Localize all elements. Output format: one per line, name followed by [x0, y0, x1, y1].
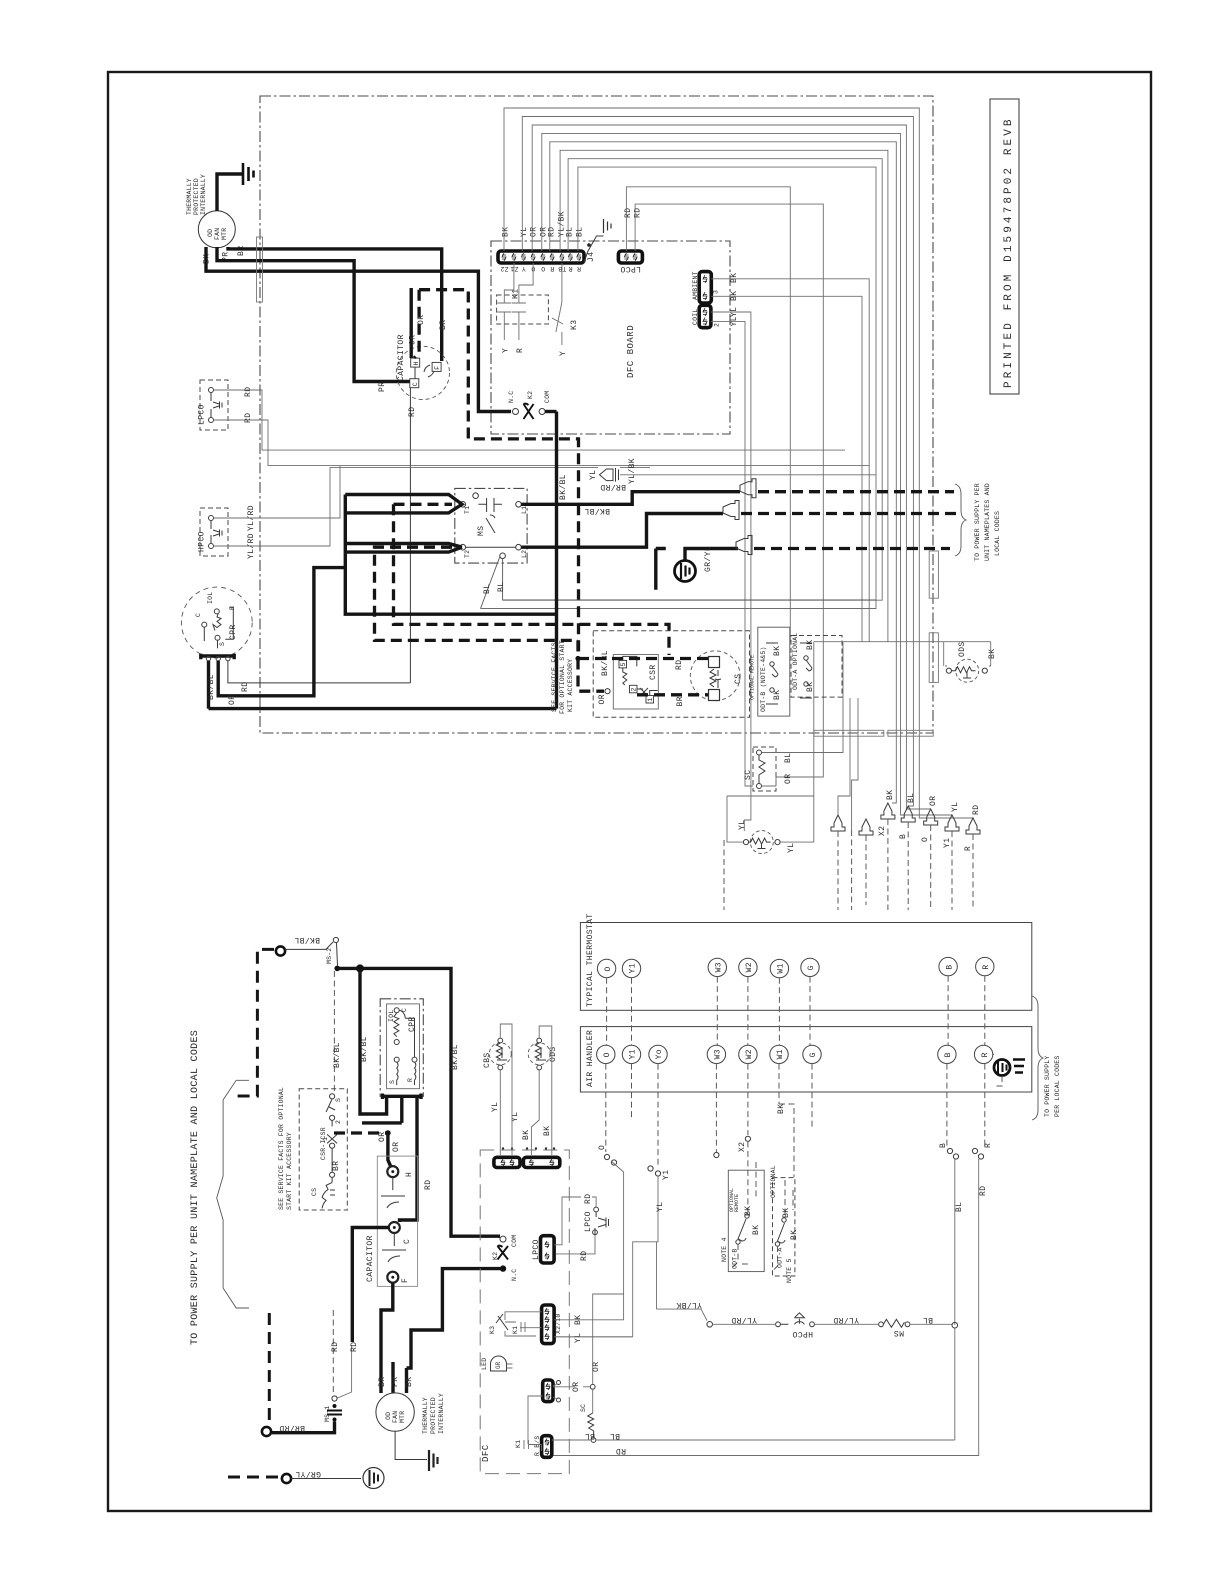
- svg-text:CS: CS: [311, 1188, 318, 1196]
- svg-text:RD: RD: [408, 407, 417, 417]
- svg-text:YL/BK: YL/BK: [676, 1300, 702, 1309]
- brace to power supply note: [955, 484, 966, 556]
- spade YL/BK on wire: [589, 458, 876, 484]
- svg-text:SEE SERVICE FACTS: SEE SERVICE FACTS: [551, 642, 558, 712]
- motor OD FAN MTR: [186, 174, 235, 248]
- wire BK heavy: [206, 247, 511, 412]
- heavy dashed RD to CS: [578, 657, 708, 660]
- svg-text:YL: YL: [520, 227, 529, 237]
- svg-text:LPCO: LPCO: [532, 1239, 541, 1260]
- capacitor box (bottom): [366, 1156, 418, 1286]
- connector LPCO on DFC board: [618, 187, 823, 777]
- svg-text:ODS: ODS: [958, 641, 967, 657]
- svg-text:RD: RD: [584, 1194, 593, 1204]
- svg-text:H: H: [405, 1172, 414, 1177]
- connector ODS plug: [523, 1157, 559, 1167]
- field wire G below: [811, 1064, 813, 1130]
- svg-text:L2: L2: [521, 550, 528, 558]
- svg-text:MS: MS: [477, 526, 486, 536]
- switch SC (top): [744, 642, 843, 791]
- ground symbol circled: [363, 1468, 384, 1489]
- svg-text:MTR: MTR: [399, 1411, 406, 1423]
- J4 pin bottom labels: [500, 265, 581, 272]
- brace power supply local codes: [1032, 996, 1043, 1120]
- motor ground wire: [217, 174, 242, 211]
- contact K2 (bottom): [492, 1235, 518, 1281]
- svg-text:BK: BK: [782, 1208, 791, 1218]
- wire YL/BK chain: [657, 1242, 958, 1338]
- svg-text:COIL: COIL: [692, 309, 699, 325]
- svg-text:S: S: [389, 1080, 396, 1084]
- svg-text:FAN: FAN: [392, 1411, 399, 1423]
- svg-text:BL: BL: [610, 1431, 620, 1440]
- svg-text:YL: YL: [656, 1202, 665, 1212]
- svg-text:BR/RD: BR/RD: [279, 1423, 305, 1432]
- DFC BOARD dash-dot box: [491, 241, 730, 434]
- wire fan from J4: [481, 108, 974, 818]
- svg-text:W1: W1: [776, 1049, 785, 1059]
- svg-text:BL: BL: [955, 1202, 964, 1212]
- field spade B: [899, 793, 916, 910]
- svg-text:BK/BL: BK/BL: [601, 650, 610, 676]
- field wire B below: [946, 1064, 948, 1148]
- svg-text:S: S: [335, 1098, 342, 1102]
- box TYPICAL THERMOSTAT: [580, 923, 1031, 1011]
- svg-text:BL: BL: [585, 1431, 595, 1440]
- svg-text:YL: YL: [574, 1333, 583, 1343]
- heavy vertical to forks: [345, 412, 556, 709]
- svg-text:S: S: [219, 642, 226, 646]
- svg-text:RD: RD: [244, 387, 253, 397]
- svg-text:MS-2: MS-2: [326, 948, 333, 964]
- svg-text:PRINTED FROM D159478P02 REVB: PRINTED FROM D159478P02 REVB: [1003, 116, 1015, 388]
- svg-text:OPTIONAL REMOTE: OPTIONAL REMOTE: [750, 655, 756, 700]
- svg-text:OD: OD: [385, 1412, 392, 1420]
- svg-text:REMOTE: REMOTE: [734, 1194, 740, 1212]
- connector X2/10: [489, 1294, 633, 1344]
- svg-text:O: O: [604, 966, 613, 971]
- svg-text:O: O: [603, 1052, 612, 1057]
- svg-text:KIT ACCESSORY: KIT ACCESSORY: [567, 659, 574, 712]
- switch ODT-A (bottom): [770, 1165, 799, 1283]
- wire RD heavy from C: [352, 1228, 389, 1343]
- svg-text:BL: BL: [907, 793, 916, 803]
- svg-text:RD: RD: [972, 805, 981, 815]
- wire PR heavy: [217, 247, 410, 382]
- svg-text:YL/BK: YL/BK: [628, 458, 637, 484]
- svg-text:BK: BK: [777, 1104, 786, 1114]
- svg-text:BK/BL: BK/BL: [294, 935, 320, 944]
- svg-text:X2/10: X2/10: [555, 1313, 562, 1334]
- unit boundary dash-dot box: [260, 96, 933, 733]
- svg-text:ODT-A OPTIONAL: ODT-A OPTIONAL: [792, 633, 799, 690]
- svg-text:Y: Y: [559, 351, 568, 356]
- svg-text:2: 2: [714, 323, 721, 327]
- wire OR from CPR: [218, 568, 345, 696]
- svg-text:SEE SERVICE FACTS FOR OPTIONAL: SEE SERVICE FACTS FOR OPTIONAL: [278, 1087, 285, 1210]
- svg-text:BK: BK: [752, 1225, 761, 1235]
- svg-text:N.C: N.C: [511, 1269, 518, 1281]
- switch LPCO (left): [198, 380, 870, 466]
- switch HPCO (left): [198, 466, 651, 559]
- svg-text:C: C: [403, 1239, 412, 1244]
- spade BR/RD power: [600, 479, 954, 498]
- svg-text:CBS: CBS: [483, 1052, 492, 1068]
- svg-text:T2: T2: [464, 550, 471, 558]
- svg-text:ODS: ODS: [549, 1046, 558, 1062]
- wire BK/BL heavy to CPR: [360, 968, 387, 1114]
- svg-text:RD: RD: [979, 1186, 988, 1196]
- svg-text:HPCO: HPCO: [198, 531, 207, 552]
- wire OR from comb: [362, 1121, 402, 1124]
- svg-text:PROTECTED: PROTECTED: [430, 1397, 437, 1434]
- spade BK/BL power: [584, 501, 957, 520]
- field wire R below: [984, 1064, 986, 1148]
- svg-text:FOR OPTIONAL START: FOR OPTIONAL START: [559, 640, 566, 714]
- svg-text:W1: W1: [777, 963, 786, 973]
- field wire W1 below: [779, 1064, 794, 1177]
- field wires thermostat to air handler: [607, 976, 985, 1045]
- start kit dashed box (bottom): [299, 1089, 347, 1210]
- svg-text:LPCO: LPCO: [620, 264, 641, 273]
- svg-text:CS: CS: [734, 674, 743, 684]
- svg-text:THERMALLY: THERMALLY: [422, 1397, 429, 1434]
- svg-text:OR: OR: [378, 1132, 387, 1142]
- heavy dashed OR/BR to CS: [578, 659, 604, 692]
- field spade O: [921, 796, 938, 910]
- svg-text:NOTE 4: NOTE 4: [721, 1237, 728, 1262]
- svg-text:BK/BL: BK/BL: [360, 1036, 369, 1062]
- svg-text:DFC: DFC: [481, 1444, 491, 1462]
- switch ODT-A (top): [791, 633, 842, 698]
- field spade X2: [878, 790, 895, 910]
- svg-text:OR: OR: [929, 796, 938, 806]
- svg-text:DFC BOARD: DFC BOARD: [626, 325, 636, 378]
- svg-text:R: R: [407, 1078, 414, 1082]
- svg-text:RD: RD: [424, 1180, 433, 1190]
- svg-text:TYPICAL THERMOSTAT: TYPICAL THERMOSTAT: [586, 913, 595, 1007]
- svg-text:YL: YL: [787, 843, 796, 853]
- svg-text:C: C: [412, 382, 419, 386]
- svg-text:LED: LED: [481, 1358, 488, 1370]
- box AIR HANDLER: [580, 1027, 1031, 1092]
- svg-text:BR: BR: [676, 696, 685, 706]
- capacitor CS: [690, 651, 743, 701]
- svg-text:O: O: [541, 265, 545, 272]
- wire N.C heavy: [407, 1269, 501, 1393]
- spade GR/YL power: [736, 536, 950, 555]
- svg-text:W2: W2: [745, 1049, 754, 1059]
- wire OR solid to H: [410, 288, 413, 358]
- svg-text:BK: BK: [773, 646, 782, 656]
- svg-text:FAN: FAN: [214, 228, 221, 240]
- svg-text:COM: COM: [511, 1235, 518, 1247]
- svg-text:F: F: [434, 366, 441, 370]
- svg-text:B: B: [939, 1143, 948, 1148]
- svg-text:BL: BL: [784, 753, 793, 763]
- svg-text:UNIT NAMEPLATES AND: UNIT NAMEPLATES AND: [984, 483, 991, 561]
- svg-text:B: B: [944, 1052, 953, 1057]
- svg-text:BK: BK: [886, 790, 895, 800]
- ground at air handler: [993, 1054, 1025, 1086]
- svg-text:ODT-B: ODT-B: [732, 1248, 739, 1269]
- svg-text:THERMALLY: THERMALLY: [186, 178, 193, 215]
- fork terminal T2: [345, 544, 462, 553]
- brace bracket: [217, 1080, 249, 1308]
- svg-text:GR/YL: GR/YL: [704, 546, 713, 572]
- svg-text:RD: RD: [580, 1251, 589, 1261]
- svg-text:SC: SC: [744, 770, 753, 780]
- wire RD from comb: [400, 1107, 418, 1222]
- svg-text:R: R: [964, 846, 973, 851]
- svg-text:OD: OD: [207, 229, 214, 237]
- relay CSR-ICSR: [311, 1094, 342, 1209]
- svg-text:BR: BR: [332, 1161, 341, 1171]
- svg-text:X2: X2: [738, 1142, 747, 1152]
- svg-text:OR: OR: [228, 695, 237, 705]
- svg-text:RD: RD: [241, 682, 250, 692]
- svg-text:O: O: [921, 837, 930, 842]
- svg-text:W3: W3: [714, 1049, 723, 1059]
- svg-text:R: R: [550, 265, 554, 272]
- svg-text:BK: BK: [405, 1377, 414, 1387]
- sensor CBS (bottom): [483, 1024, 520, 1155]
- svg-text:OR: OR: [592, 1362, 601, 1372]
- CPR plug comb (bottom): [383, 1094, 422, 1100]
- svg-text:AMBIENT: AMBIENT: [692, 271, 699, 300]
- svg-text:1: 1: [322, 1137, 329, 1141]
- DFC dashed box: [480, 1150, 569, 1474]
- svg-text:R: R: [577, 265, 581, 272]
- field wire W2 below to X2: [747, 1064, 749, 1135]
- svg-text:K2: K2: [527, 391, 534, 399]
- field wire W3 below: [715, 1064, 717, 1152]
- svg-text:YL: YL: [589, 470, 598, 480]
- svg-text:L1: L1: [521, 506, 528, 514]
- switch ODT-B (top): [750, 627, 790, 716]
- svg-text:LPCO: LPCO: [198, 404, 207, 425]
- svg-text:LPCO: LPCO: [584, 1211, 593, 1232]
- svg-text:RD: RD: [244, 413, 253, 423]
- svg-text:CSR-ICSR: CSR-ICSR: [320, 1127, 327, 1160]
- svg-text:GR: GR: [495, 1361, 502, 1369]
- svg-text:PER LOCAL CODES: PER LOCAL CODES: [1054, 1055, 1061, 1117]
- svg-text:RD: RD: [350, 1342, 359, 1352]
- switch K3 on DFC board: [552, 263, 579, 356]
- svg-text:OR: OR: [409, 335, 418, 345]
- svg-text:CPR: CPR: [408, 1016, 417, 1032]
- svg-text:Yo: Yo: [655, 1049, 664, 1059]
- wires from ODT to field spades: [838, 698, 858, 830]
- J4 wire top labels: [502, 211, 585, 237]
- svg-text:R: R: [981, 1052, 990, 1057]
- svg-text:YL: YL: [738, 820, 747, 830]
- svg-text:T1: T1: [464, 506, 471, 514]
- dashed fork feeds: [394, 504, 670, 655]
- svg-text:START KIT ACCESSORY: START KIT ACCESSORY: [286, 1132, 293, 1210]
- svg-text:BK: BK: [730, 273, 739, 283]
- svg-text:Z2: Z2: [500, 265, 508, 272]
- svg-text:BR/RD: BR/RD: [600, 482, 626, 491]
- dashed OR loop to K2 area: [419, 290, 578, 659]
- svg-text:BK: BK: [730, 291, 739, 301]
- svg-text:COM: COM: [544, 391, 551, 403]
- svg-text:BK: BK: [502, 227, 511, 237]
- svg-text:ODT-B (NOTE-4&5): ODT-B (NOTE-4&5): [760, 646, 767, 712]
- svg-text:X2: X2: [878, 826, 887, 836]
- wire L1 heavy to spade: [521, 492, 740, 505]
- svg-text:BK/BL: BK/BL: [451, 1044, 460, 1070]
- field spade R: [964, 805, 981, 910]
- svg-text:2: 2: [335, 1120, 342, 1124]
- field wire Y1 below: [631, 1064, 633, 1120]
- svg-text:R B/S: R B/S: [534, 1435, 541, 1456]
- svg-text:Y1: Y1: [629, 1049, 638, 1059]
- svg-text:CAPACITOR: CAPACITOR: [366, 1235, 375, 1282]
- svg-text:3: 3: [713, 290, 720, 294]
- svg-text:Y: Y: [502, 348, 511, 353]
- compressor CPR (top): [181, 587, 252, 658]
- connector LPCO (bottom): [532, 1194, 609, 1263]
- svg-text:K1: K1: [512, 1326, 519, 1334]
- svg-text:BK/BL: BK/BL: [559, 474, 568, 500]
- svg-text:CSR: CSR: [649, 664, 658, 680]
- svg-text:BL: BL: [575, 227, 584, 237]
- svg-text:IOL: IOL: [207, 592, 214, 604]
- field power BR/RD dashed: [268, 1313, 271, 1427]
- contact K2: [508, 391, 557, 419]
- svg-text:R: R: [984, 1143, 993, 1148]
- svg-text:K2: K2: [492, 1252, 499, 1260]
- connector OR: [543, 1294, 624, 1413]
- svg-text:RD: RD: [675, 660, 684, 670]
- svg-text:2: 2: [631, 687, 638, 691]
- ground symbol: [243, 163, 254, 185]
- LED: [481, 1356, 513, 1371]
- svg-text:YL/RD: YL/RD: [833, 1315, 859, 1324]
- svg-text:YL/RD: YL/RD: [731, 1315, 757, 1324]
- svg-text:PR: PR: [391, 1377, 400, 1387]
- svg-text:TO POWER SUPPLY PER UNIT NAMEP: TO POWER SUPPLY PER UNIT NAMEPLATE AND L…: [190, 1030, 201, 1345]
- field power wire BK/BL dashed: [232, 949, 274, 1096]
- svg-text:B: B: [945, 964, 954, 969]
- contactor MS box: [455, 488, 876, 608]
- svg-text:TO POWER SUPPLY PER: TO POWER SUPPLY PER: [974, 483, 981, 561]
- wire RD from capacitor C: [228, 388, 411, 683]
- svg-text:G: G: [807, 965, 816, 970]
- wire BK/BL from CPR: [209, 661, 557, 709]
- svg-text:BK: BK: [988, 649, 997, 659]
- connector BL/RD: [515, 1328, 955, 1457]
- relay K1 cap (lower): [524, 1396, 543, 1451]
- svg-text:BK: BK: [543, 1126, 552, 1136]
- switch ODT-B (bottom): [721, 1141, 764, 1271]
- svg-text:PR: PR: [378, 382, 387, 392]
- field wire Yo below: [657, 1064, 659, 1166]
- compressor CPR (bottom): [380, 999, 423, 1097]
- svg-text:BL: BL: [566, 227, 575, 237]
- wire OR dashed to H: [414, 290, 419, 358]
- sensor ODS (bottom): [522, 1026, 558, 1155]
- svg-text:BL: BL: [497, 582, 506, 592]
- ground at DFC board: [584, 219, 611, 263]
- ring terminal BK/BL: [276, 946, 285, 955]
- svg-text:BK/BL: BK/BL: [207, 674, 216, 700]
- svg-text:RD: RD: [616, 1446, 626, 1455]
- svg-text:OR: OR: [417, 315, 426, 325]
- svg-text:LOCAL CODES: LOCAL CODES: [994, 511, 1001, 556]
- field wire O below: [605, 1064, 607, 1152]
- svg-text:C: C: [195, 613, 202, 617]
- wire L2 heavy to spade: [521, 514, 723, 548]
- fork terminal T1: [345, 495, 462, 513]
- sensor ODS (top): [814, 641, 997, 682]
- svg-text:AIR HANDLER: AIR HANDLER: [586, 1030, 595, 1087]
- svg-text:OR: OR: [784, 774, 793, 784]
- field spade Y1: [943, 802, 960, 910]
- relays K3 K1 leads: [505, 1312, 542, 1336]
- connector COIL: [692, 305, 753, 831]
- motor OD FAN MTR (bottom): [376, 1377, 445, 1471]
- svg-text:SC: SC: [580, 1404, 587, 1412]
- svg-text:RD: RD: [547, 227, 556, 237]
- svg-text:R: R: [516, 348, 525, 353]
- svg-text:INTERNALLY: INTERNALLY: [438, 1393, 445, 1434]
- svg-text:BK/BL: BK/BL: [333, 1042, 342, 1068]
- svg-text:Y1: Y1: [662, 1170, 671, 1180]
- page border frame: [108, 72, 1151, 1511]
- svg-text:BK: BK: [522, 1130, 531, 1140]
- svg-text:BK: BK: [790, 1230, 799, 1240]
- svg-text:NOTE 5: NOTE 5: [786, 1258, 793, 1283]
- capacitor (top diagram): [396, 334, 449, 399]
- wire from F heavy: [381, 1283, 393, 1393]
- relay CSR box: [601, 650, 658, 709]
- J4 pin marks: [502, 253, 581, 261]
- svg-text:PROTECTED: PROTECTED: [193, 178, 200, 215]
- svg-text:RD: RD: [624, 208, 633, 218]
- svg-text:Y1: Y1: [629, 963, 638, 973]
- svg-text:MS: MS: [894, 1328, 904, 1337]
- wire looms: [257, 237, 939, 736]
- svg-text:OPTIONAL: OPTIONAL: [770, 1165, 777, 1198]
- svg-text:F: F: [401, 1278, 410, 1283]
- svg-text:G: G: [809, 1052, 818, 1057]
- svg-text:CAPACITOR: CAPACITOR: [397, 334, 406, 381]
- svg-text:TO POWER SUPPLY: TO POWER SUPPLY: [1044, 1055, 1051, 1117]
- svg-text:J4: J4: [587, 252, 596, 262]
- svg-text:H: H: [413, 361, 420, 365]
- start kit outer dashed box: [593, 631, 749, 718]
- svg-text:Y1: Y1: [943, 838, 952, 848]
- svg-text:YL: YL: [491, 1102, 500, 1112]
- air handler terminals: [597, 1045, 993, 1063]
- switch SC (bottom): [580, 1404, 596, 1443]
- connector CBS plug: [494, 1157, 520, 1167]
- svg-text:HPCO: HPCO: [792, 1329, 813, 1338]
- svg-text:Y: Y: [522, 265, 526, 272]
- switch MS-2: [333, 937, 338, 942]
- svg-text:BK/BL: BK/BL: [584, 506, 610, 515]
- svg-text:GR/YL: GR/YL: [295, 1469, 321, 1478]
- svg-text:R: R: [568, 265, 572, 272]
- svg-text:K3: K3: [489, 1326, 496, 1334]
- svg-text:W3: W3: [715, 962, 724, 972]
- wire BK/BL dashed to CSR: [333, 971, 335, 1092]
- svg-text:R: R: [229, 606, 236, 610]
- svg-text:INTERNALLY: INTERNALLY: [200, 174, 207, 215]
- svg-text:BL: BL: [923, 1315, 933, 1324]
